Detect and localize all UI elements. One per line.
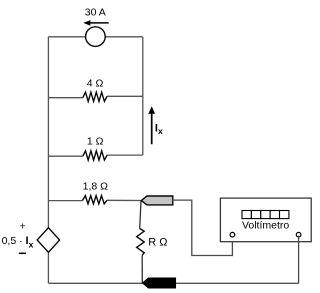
svg-text:Voltímetro: Voltímetro <box>242 220 289 232</box>
voltmeter display segments <box>242 211 289 219</box>
svg-text:0,5 · Ix: 0,5 · Ix <box>2 235 34 250</box>
resistor 4 ohm zigzag <box>83 92 107 101</box>
svg-text:1 Ω: 1 Ω <box>87 135 104 147</box>
wire right vertical branch <box>142 37 144 155</box>
wire below R to bottom node <box>141 255 143 283</box>
terminal + (left circle) <box>230 232 235 237</box>
terminal - (right circle) <box>296 232 301 237</box>
resistor 1 ohm zigzag <box>83 151 107 160</box>
svg-text:4 Ω: 4 Ω <box>87 78 104 90</box>
svg-text:Ix: Ix <box>155 123 163 136</box>
resistor R ohm vertical zigzag <box>137 229 145 256</box>
probe gray (voltmeter + lead tip) <box>141 196 173 205</box>
label - polarity <box>19 252 26 254</box>
resistor 1 ohm leads <box>48 155 82 157</box>
arrow Ix (points up) <box>148 106 155 144</box>
voltmeter box <box>220 198 311 242</box>
svg-text:1,8 Ω: 1,8 Ω <box>83 180 109 192</box>
current source 30 A (circle) <box>86 27 106 47</box>
svg-text:30 A: 30 A <box>85 6 106 18</box>
arrow 30 A (points left) <box>83 20 108 26</box>
resistor 4 ohm leads <box>48 97 82 99</box>
svg-text:R Ω: R Ω <box>148 236 167 248</box>
wire bottom node <box>48 282 298 284</box>
wire voltmeter - terminal to bottom node <box>298 236 300 284</box>
wire gray probe to voltmeter + terminal <box>173 200 233 255</box>
resistor 1,8 ohm leads <box>48 200 82 202</box>
dependent source 0,5*Ix (diamond) <box>37 228 59 253</box>
wire top node <box>48 36 142 38</box>
wire 1.8ohm node down to R <box>140 201 141 229</box>
resistor 1,8 ohm zigzag <box>83 196 107 204</box>
probe black (voltmeter - lead tip) <box>143 278 176 288</box>
svg-text:+: + <box>20 220 26 232</box>
wire left vertical branch <box>47 37 49 283</box>
